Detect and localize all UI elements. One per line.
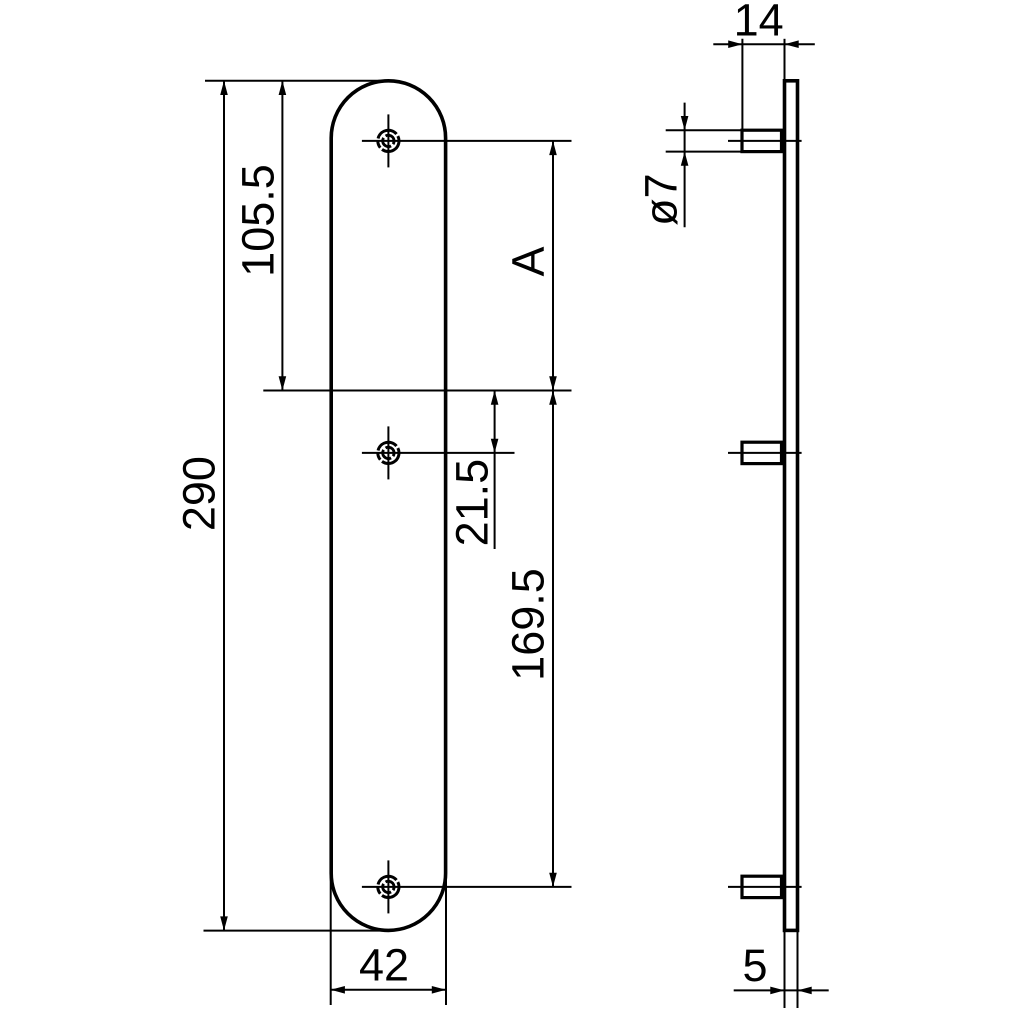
hole H3 bottom: inner circle (broken)	[383, 881, 394, 892]
dimension 14: extension lines	[742, 39, 784, 130]
peg H1 top center line	[728, 140, 802, 142]
dimension 5: extension lines	[785, 930, 798, 1008]
dimension A line with arrows	[552, 141, 554, 391]
hole H2 middle: inner circle (broken)	[383, 447, 394, 458]
wire: top extension line (290 top edge)	[205, 80, 385, 82]
svg-text:14: 14	[734, 0, 784, 45]
dimension 21.5 line with arrows	[494, 391, 496, 550]
dimension diameter-7 line with outside arrows	[684, 103, 686, 228]
hole H2 middle: centerline cross	[362, 426, 515, 479]
peg H3 bottom center line	[728, 886, 802, 888]
peg H2 middle (side view)	[742, 442, 782, 463]
svg-text:5: 5	[742, 940, 767, 991]
peg H3 bottom (side view)	[742, 876, 782, 897]
dimension 169.5 line with arrows	[552, 391, 554, 887]
dimension 290 line with arrows	[223, 81, 225, 931]
peg H2 middle center line	[728, 452, 802, 454]
dimension 42: extension lines	[331, 874, 446, 1006]
dimension diameter-7: extension lines	[666, 130, 742, 151]
wire: extension line 105.5 below top	[263, 390, 571, 392]
hole H2 middle: outer broken circle	[378, 442, 399, 463]
peg H1 top (side view)	[742, 130, 782, 151]
svg-text:ø7: ø7	[636, 173, 687, 226]
side view plate	[785, 81, 798, 931]
dimension 5 line with outside arrows	[734, 989, 829, 991]
svg-text:290: 290	[174, 456, 225, 531]
plate outline (front view)	[331, 81, 445, 931]
svg-text:105.5: 105.5	[232, 164, 283, 277]
hole H1 top: outer broken circle	[378, 130, 399, 151]
svg-text:169.5: 169.5	[503, 568, 554, 681]
svg-text:42: 42	[359, 940, 409, 991]
wire: bottom extension line (290 bottom edge)	[204, 930, 386, 932]
hole H1 top: inner circle (broken)	[383, 135, 394, 146]
dimension 14 line with outside arrows	[713, 43, 815, 45]
hole H3 bottom: outer broken circle	[378, 876, 399, 897]
svg-text:21.5: 21.5	[446, 459, 497, 547]
svg-text:A: A	[502, 246, 553, 276]
hole H3 bottom: centerline cross	[362, 860, 572, 913]
dimension 42 line with arrows	[331, 989, 446, 991]
hole H1 top: centerline cross	[362, 114, 572, 167]
dimension 105.5 line with arrows	[281, 81, 283, 391]
